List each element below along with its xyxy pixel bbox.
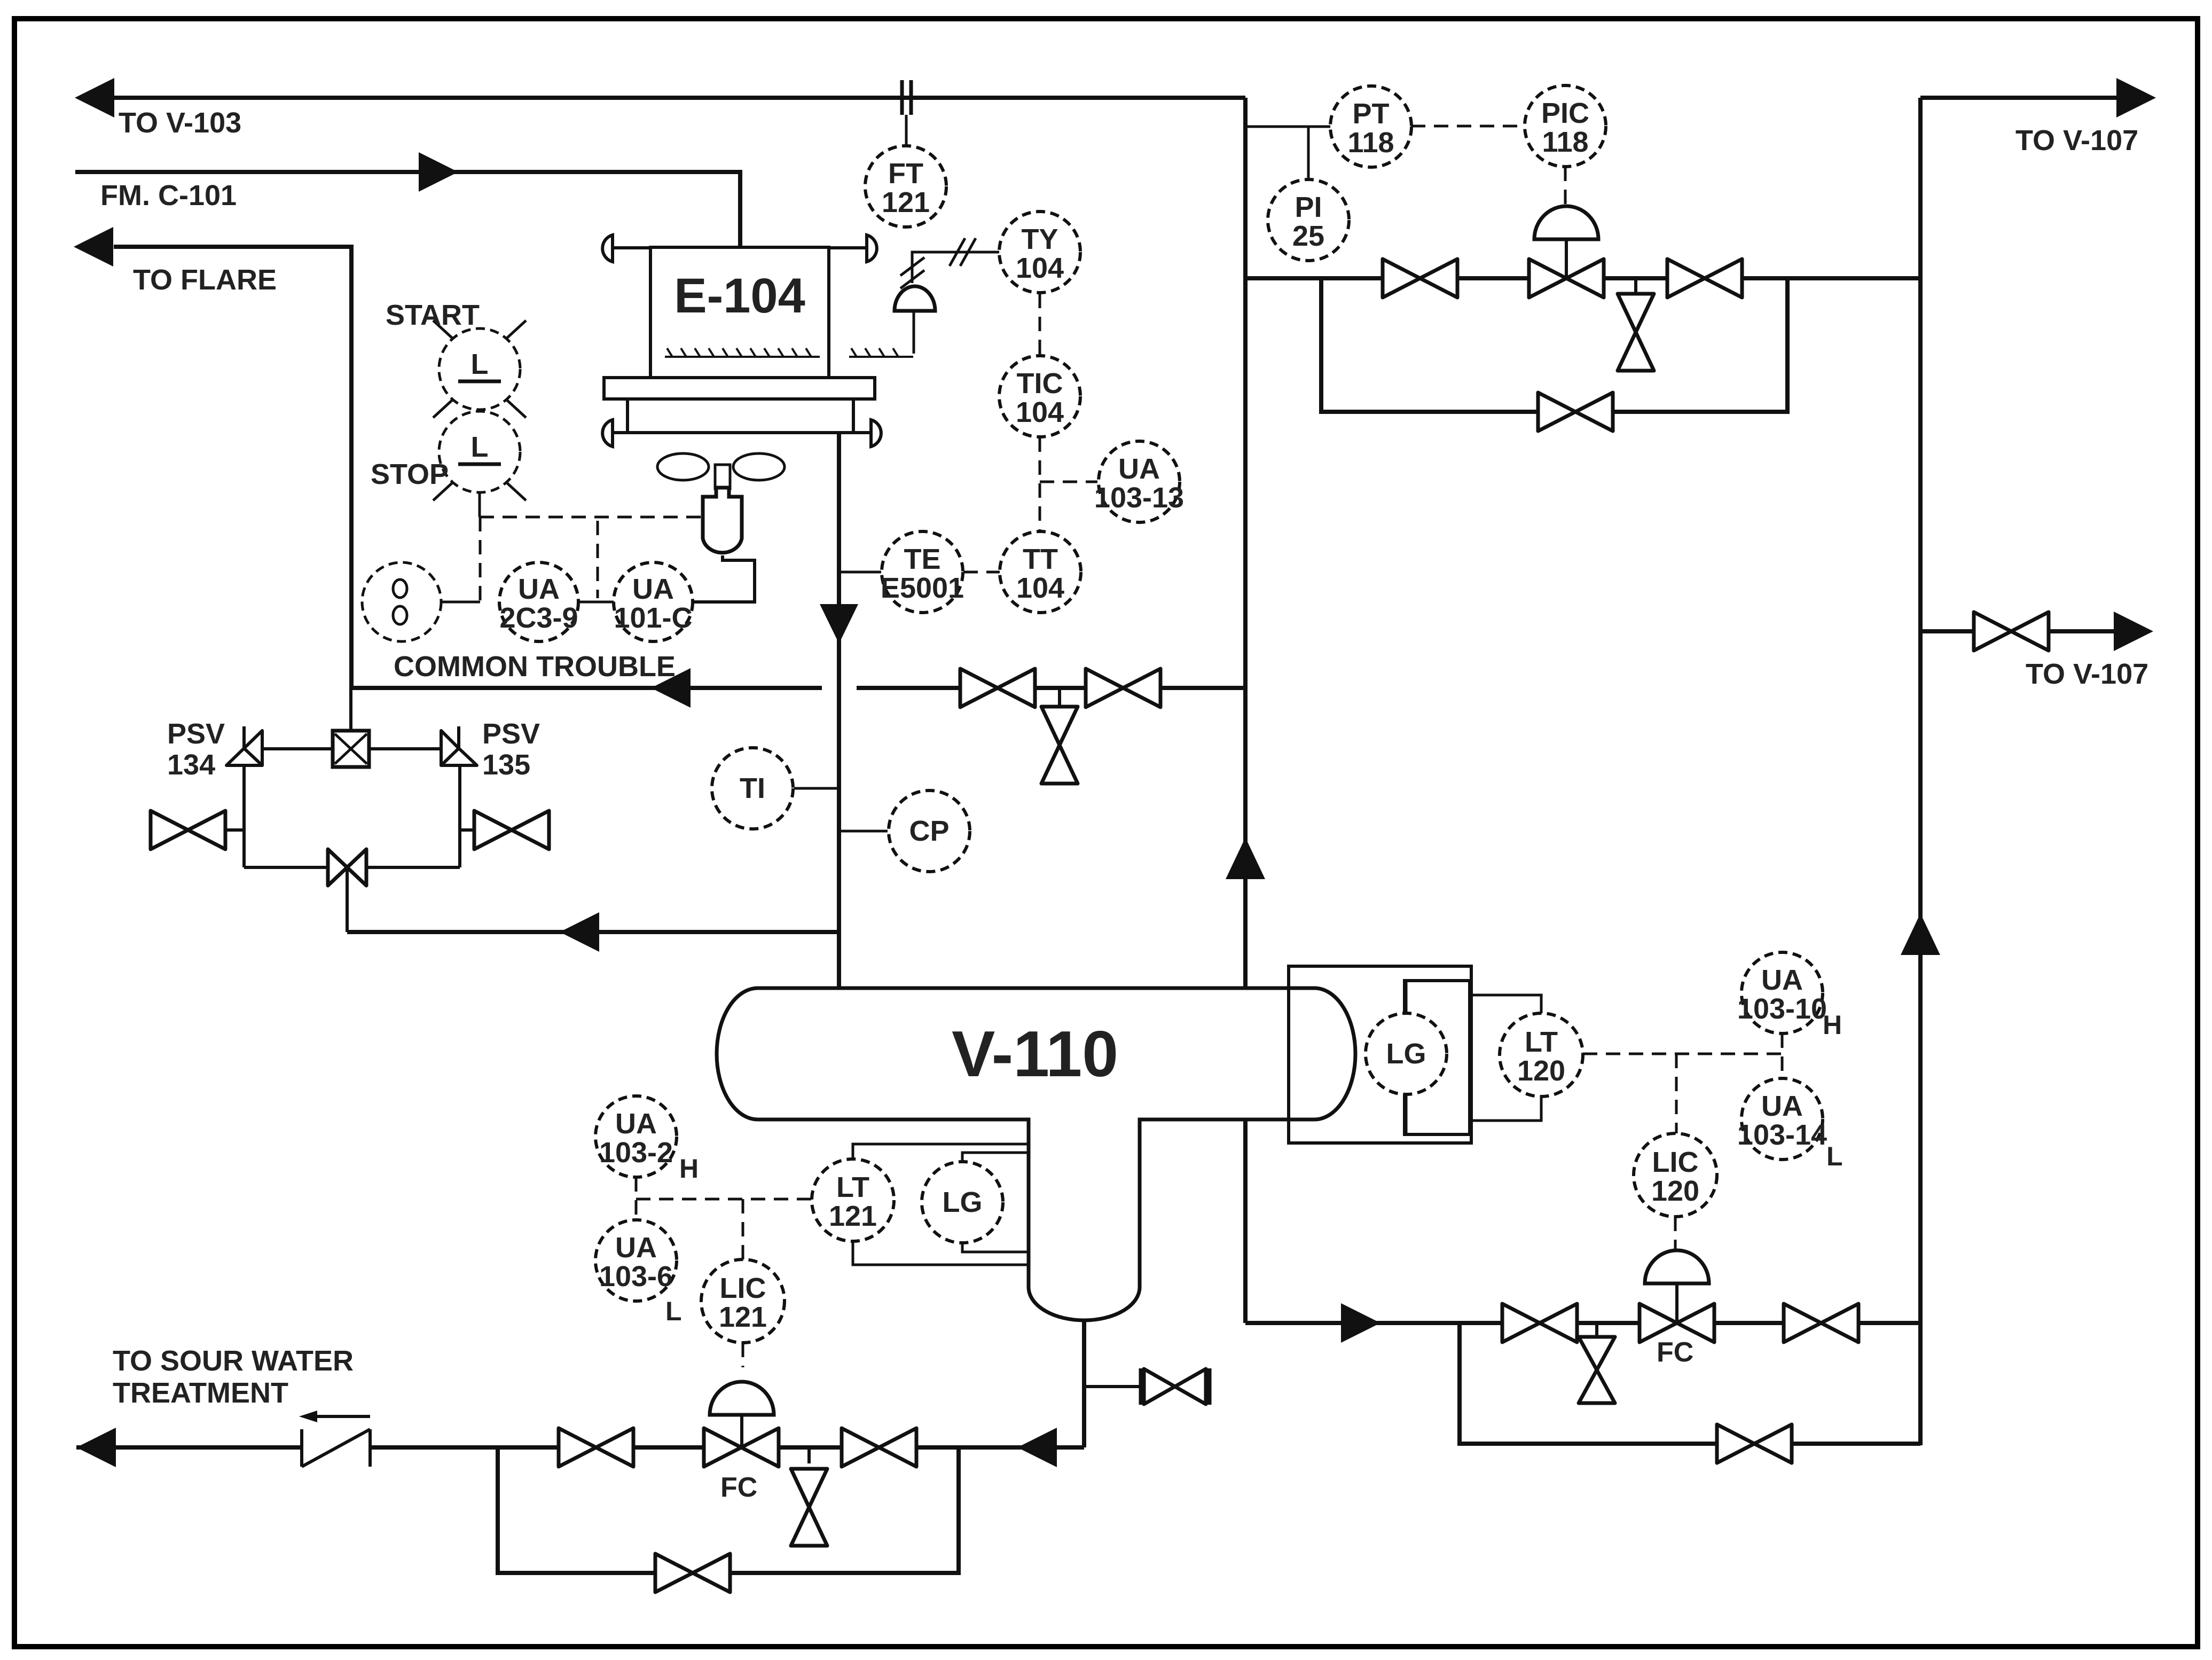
svg-text:TY: TY [1021, 223, 1058, 255]
svg-text:135: 135 [482, 749, 530, 781]
svg-text:LT: LT [1525, 1026, 1558, 1058]
wire PSV inlet riser [346, 867, 349, 932]
svg-text:TO FLARE: TO FLARE [133, 264, 277, 296]
svg-text:H: H [679, 1154, 699, 1184]
instrument UA-103-10 [1737, 952, 1827, 1033]
instrument PIC-118 [1525, 85, 1606, 167]
svg-text:103-10: 103-10 [1737, 993, 1827, 1025]
wire signal to UA flags [1781, 1033, 1784, 1078]
wire UA link [578, 601, 614, 604]
valve PSV-135 isolation (gate) [474, 811, 549, 849]
svg-text:121: 121 [829, 1200, 877, 1232]
flow arrow to V-103 [75, 78, 114, 118]
svg-text:TO V-107: TO V-107 [2015, 124, 2138, 156]
wire vapour riser V-110 to header [1243, 98, 1248, 988]
svg-text:25: 25 [1292, 220, 1324, 252]
instrument UA-2C3-9 [499, 562, 578, 641]
wire FM C-101 feed line [75, 172, 740, 247]
wire PV-118 stem [1565, 239, 1568, 278]
svg-text:FC: FC [720, 1472, 757, 1503]
valve control valve LV-121 (gate) [704, 1428, 779, 1467]
wire stub to TI [794, 787, 839, 790]
svg-text:PIC: PIC [1541, 97, 1589, 129]
flow arrow FM C-101 flow [419, 152, 458, 192]
svg-text:PSV: PSV [482, 718, 540, 750]
valve block flare header B (gate) [1086, 669, 1160, 707]
svg-text:FM. C-101: FM. C-101 [100, 179, 237, 212]
svg-text:103-6: 103-6 [599, 1260, 673, 1293]
svg-text:UA: UA [615, 1108, 657, 1140]
wire V-110 bottom outlet east [1243, 1119, 1248, 1323]
svg-text:121: 121 [882, 186, 930, 218]
flow arrow flow to PSVs [560, 912, 599, 952]
wire signal LIC-120 to LV [1674, 1217, 1677, 1255]
valve control valve LV-120 (gate) [1640, 1304, 1714, 1342]
wire PSV equalizer header [244, 866, 460, 869]
wire signal TE to TT [963, 571, 1000, 574]
svg-text:CP: CP [909, 815, 949, 847]
svg-text:UA: UA [1761, 964, 1803, 996]
wire LV-120 bypass loop [1460, 1323, 1920, 1444]
instrument UA-103-6 [595, 1220, 677, 1301]
valve LV-120 upstream block (gate) [1502, 1304, 1577, 1342]
wire signal to UA-103-13 [1040, 481, 1097, 483]
instrument TI [712, 748, 793, 829]
vessel V-110 with boot [717, 988, 1355, 1320]
svg-text:120: 120 [1517, 1055, 1565, 1087]
wire flare relief header east [857, 686, 1245, 690]
svg-text:TO V-103: TO V-103 [119, 107, 241, 139]
relief valve PSV-135 [441, 726, 477, 765]
valve LV-120 downstream block (gate) [1784, 1304, 1858, 1342]
svg-text:LG: LG [1386, 1038, 1426, 1070]
svg-text:103-13: 103-13 [1094, 482, 1184, 514]
actuator diaphragm LV-120 [1645, 1250, 1709, 1283]
wire to flare header [114, 247, 351, 689]
wire HS stub [479, 492, 481, 517]
wire PSV outlet header E [369, 747, 443, 750]
relief valve PSV-134 [226, 726, 262, 765]
svg-text:FC: FC [1657, 1337, 1693, 1368]
svg-text:E-104: E-104 [674, 269, 805, 323]
instrument LIC-121 [701, 1259, 785, 1343]
wire branch to PT-118 [1245, 126, 1331, 128]
svg-text:120: 120 [1651, 1175, 1699, 1207]
svg-text:TE: TE [904, 543, 940, 575]
instrument UA-103-13 [1094, 441, 1184, 522]
svg-text:134: 134 [167, 749, 215, 781]
svg-text:H: H [1823, 1010, 1842, 1040]
instrument TE-E5001 [881, 531, 964, 613]
wire drain stub [1595, 1323, 1598, 1337]
wire actuator stem [913, 311, 915, 354]
wire drain stub [1058, 688, 1061, 707]
wire east riser [1918, 98, 1923, 1445]
valve block downstream PV-118 (gate) [1667, 259, 1742, 297]
valve NC (normally closed, boxed) [333, 731, 369, 767]
valve PV manifold drain (vertical drain/vent gate) [1618, 294, 1654, 371]
flow arrow to flare [74, 227, 113, 267]
equipment E-104 air cooler [602, 235, 881, 447]
instrument PT-118 [1330, 86, 1411, 167]
finned tube symbol E-104 [665, 348, 820, 357]
svg-text:104: 104 [1016, 252, 1064, 284]
valve LV-120 bypass (gate) [1717, 1424, 1792, 1463]
svg-text:UA: UA [1761, 1090, 1803, 1122]
svg-text:118: 118 [1542, 126, 1588, 158]
svg-text:TIC: TIC [1017, 367, 1063, 400]
svg-text:FT: FT [888, 158, 923, 190]
wire flare relief header west [351, 686, 822, 690]
wire LV-121 stem [740, 1415, 743, 1447]
wire stub to CP [839, 830, 888, 833]
wire drain stub [1634, 278, 1637, 294]
svg-text:UA: UA [615, 1232, 657, 1264]
flow arrow flow to LV-120 [1341, 1303, 1380, 1343]
svg-text:E5001: E5001 [881, 572, 964, 604]
wire signal PT-118 to PIC-118 [1411, 125, 1525, 128]
svg-text:UA: UA [518, 573, 560, 605]
svg-text:LIC: LIC [720, 1272, 766, 1304]
instrument UA-103-2 [595, 1096, 677, 1177]
wire signal LT-121 to alarms [636, 1198, 812, 1201]
svg-text:V-110: V-110 [952, 1017, 1118, 1090]
instrument LG east [1366, 1013, 1447, 1094]
instrument TT-104 [1000, 531, 1081, 613]
wire PSV outlet header W [261, 747, 333, 750]
svg-text:101-C: 101-C [614, 602, 692, 634]
svg-text:L: L [471, 431, 489, 463]
svg-text:103-2: 103-2 [599, 1137, 673, 1169]
wire sour water line [76, 1445, 1084, 1450]
actuator diaphragm louver actuator E-104 [895, 286, 935, 311]
svg-text:TT: TT [1023, 543, 1058, 575]
signal TY-104 to louver actuator [912, 252, 999, 283]
wire signal to motor [480, 516, 701, 519]
svg-text:TO SOUR WATER: TO SOUR WATER [113, 1345, 354, 1377]
svg-text:COMMON TROUBLE: COMMON TROUBLE [394, 651, 676, 683]
end bars boot drain valve [1139, 1368, 1143, 1405]
svg-text:104: 104 [1016, 396, 1064, 428]
wire PV bypass loop [1321, 278, 1787, 412]
flow arrow flow from boot [1017, 1428, 1057, 1467]
wire signal UA chain [635, 1177, 638, 1220]
flow arrow to sour water [76, 1428, 116, 1467]
svg-text:STOP: STOP [371, 458, 449, 490]
wire LV-120 line [1245, 1321, 1920, 1325]
wire line to V-103 header [114, 96, 1245, 100]
wire signal LT-120 [1583, 1053, 1782, 1055]
wire signal drop mid [597, 521, 599, 598]
wire PV manifold line [1245, 276, 1920, 280]
svg-text:2C3-9: 2C3-9 [499, 602, 578, 634]
finned tube symbol (louver section) [849, 348, 913, 357]
valve control valve PV-118 (gate) [1529, 259, 1604, 297]
valve flare header drain (vertical drain/vent gate) [1041, 707, 1078, 784]
instrument PI-25 [1268, 179, 1349, 261]
instrument LT-120 [1500, 1013, 1583, 1097]
wire alarm link [441, 601, 480, 604]
instrument LIC-120 [1634, 1133, 1717, 1217]
svg-text:118: 118 [1347, 127, 1394, 159]
flow arrow east riser flow [1901, 913, 1940, 955]
wire signal drop left [479, 517, 482, 602]
end bar west [150, 812, 153, 848]
wire drain stub [807, 1447, 811, 1463]
valve PSV-134 isolation (gate) [151, 811, 225, 849]
instrument CP [889, 790, 970, 872]
valve block to V-107 (gate) [1974, 612, 2049, 651]
svg-text:121: 121 [719, 1301, 767, 1333]
svg-text:START: START [386, 299, 480, 331]
valve LV-120 manifold drain (vertical drain/vent gate) [1579, 1337, 1615, 1403]
wire signal to LIC-120 [1675, 1054, 1678, 1133]
wire branch to V-107 mid [1920, 629, 2116, 633]
motor M E-104 fan [703, 488, 742, 553]
svg-text:L: L [471, 348, 489, 380]
svg-text:PI: PI [1295, 191, 1322, 223]
hand switch HS STOP [433, 411, 526, 500]
level bridle taps LT-121 [853, 1144, 1029, 1265]
svg-text:PSV: PSV [167, 718, 225, 750]
flow arrow to V-107 top [2116, 78, 2156, 118]
instrument FT-121 [865, 146, 946, 227]
valve LV-121 downstream block (gate) [842, 1428, 916, 1467]
wire west block line [151, 828, 244, 832]
valve PSV equalizer valve (gate) [328, 849, 366, 886]
alarm annunciator (common trouble light) [362, 562, 441, 641]
valve block upstream PV-118 (gate) [1383, 259, 1457, 297]
fan E-104 [657, 453, 785, 489]
wire signal PIC-118 to valve [1564, 167, 1567, 207]
wire FT-121 tap [905, 115, 908, 146]
svg-text:103-14: 103-14 [1737, 1119, 1827, 1151]
instrument LG west [922, 1162, 1003, 1243]
valve PV bypass (gate) [1538, 393, 1613, 431]
flow arrow riser flow up [1226, 837, 1265, 879]
wire boot outlet [1082, 1320, 1086, 1447]
actuator diaphragm LV-121 [710, 1382, 774, 1415]
wire signal LIC-121 to LV [742, 1343, 744, 1367]
wire LV-120 stem [1675, 1283, 1678, 1323]
check valve sour water [302, 1416, 370, 1467]
wire PSV-134 inlet riser [242, 767, 246, 867]
instrument TIC-104 [999, 356, 1080, 437]
wire PSV-135 inlet riser [458, 767, 461, 867]
svg-text:TREATMENT: TREATMENT [113, 1377, 288, 1409]
wire E-104 outlet to V-110 [837, 433, 841, 988]
flow arrow flow to flare [651, 668, 691, 708]
wire boot drain stub [1084, 1385, 1141, 1388]
svg-text:L: L [665, 1296, 682, 1326]
svg-text:LIC: LIC [1652, 1146, 1699, 1178]
flow arrow to V-107 mid [2114, 612, 2153, 651]
valve LV-121 manifold drain (vertical drain/vent gate) [791, 1469, 827, 1546]
wire signal to LIC-121 [742, 1199, 744, 1259]
hand switch HS START [433, 320, 526, 418]
valve LV-121 bypass (gate) [655, 1554, 730, 1592]
svg-text:L: L [1826, 1141, 1843, 1171]
svg-text:LT: LT [836, 1171, 869, 1203]
wire stub to PI-25 [1307, 127, 1310, 180]
flow arrow flow down to V-110 [820, 604, 858, 644]
valve boot drain valve (gate) [1144, 1369, 1206, 1404]
wire signal TY-TIC [1039, 294, 1041, 355]
wire stub to TE [839, 571, 881, 574]
wire line to V-107 top [1920, 96, 2116, 100]
instrument TY-104 [999, 212, 1080, 293]
valve LV-121 upstream block (gate) [559, 1428, 633, 1467]
svg-text:LG: LG [943, 1186, 983, 1218]
svg-text:TI: TI [740, 772, 765, 804]
wire motor to UA 101-C [693, 555, 755, 602]
end bar east [547, 812, 551, 848]
wire east block line [460, 828, 548, 832]
wire LV-121 bypass loop [498, 1447, 959, 1573]
wire PSV inlet header [347, 930, 839, 934]
svg-text:PT: PT [1352, 98, 1389, 130]
instrument UA-103-14 [1737, 1078, 1827, 1160]
instrument LT-121 [812, 1159, 894, 1241]
svg-text:TO V-107: TO V-107 [2026, 658, 2148, 690]
wire signal TIC-TT [1039, 437, 1041, 531]
valve block flare header A (gate) [960, 669, 1035, 707]
svg-text:UA: UA [1118, 453, 1160, 485]
svg-text:UA: UA [632, 573, 674, 605]
level bridle frame east [1289, 966, 1471, 1143]
actuator diaphragm PV-118 [1534, 206, 1598, 239]
instrument UA-101-C [614, 562, 693, 641]
wire stub to NC valve [349, 689, 352, 731]
svg-text:104: 104 [1016, 572, 1064, 604]
orifice plate FT-121 [900, 80, 904, 115]
